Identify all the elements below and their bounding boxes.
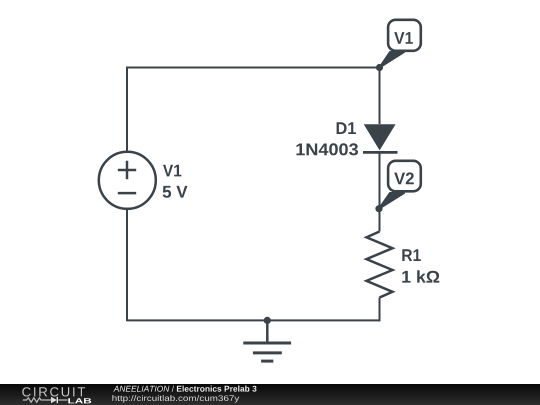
junction dot node V1 — [376, 64, 383, 71]
wire bottom — [126, 319, 380, 321]
node V1 text — [394, 32, 413, 44]
junction dot node V2 — [375, 205, 382, 212]
CircuitLab logo symbol (resistor + diode) — [23, 397, 68, 403]
resistor R1 — [367, 232, 393, 298]
label D1 value 1N4003 — [296, 143, 358, 155]
ground — [243, 320, 291, 361]
node V2 callout — [379, 161, 421, 209]
footer title text ANEELIATION / Electronics Prelab 3 — [113, 386, 256, 392]
node V1 callout — [380, 20, 421, 68]
footer url text — [112, 395, 239, 403]
CircuitLab logo LAB text — [68, 398, 91, 403]
label R1 value 1 kOhm — [402, 270, 439, 282]
label V1 value 5 V — [163, 186, 188, 198]
wire left vertical upper — [126, 67, 128, 153]
wire top from V1 source to node V1 — [127, 67, 380, 69]
wire right vertical upper (node V1 to diode) — [379, 68, 381, 125]
CircuitLab logo wordmark CIRCUIT — [22, 387, 85, 396]
junction dot ground — [264, 317, 271, 324]
label R1 name — [402, 249, 421, 261]
label V1 name — [163, 165, 181, 177]
voltage source V1 — [99, 152, 156, 209]
footer bar — [0, 384, 540, 405]
wire diode to resistor — [379, 152, 381, 232]
node V2 text — [394, 172, 414, 184]
wire left vertical lower — [126, 209, 128, 320]
diode D1 — [363, 124, 398, 152]
label D1 name — [337, 122, 356, 134]
wire resistor to bottom — [379, 298, 381, 322]
